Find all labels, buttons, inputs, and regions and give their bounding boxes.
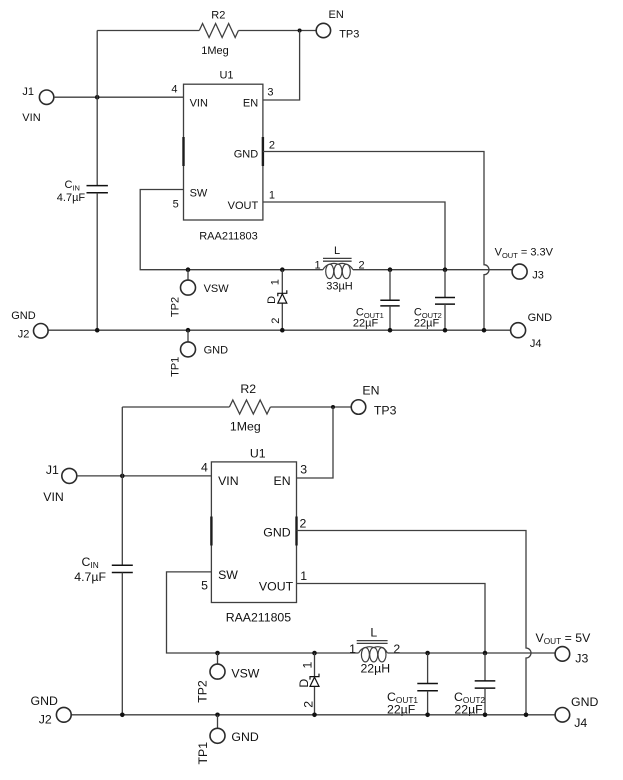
- resistor R2: [199, 24, 238, 38]
- svg-text:2: 2: [270, 318, 282, 324]
- junction VIN node: [95, 95, 100, 100]
- svg-text:SW: SW: [190, 188, 208, 200]
- capacitor COUT1: [380, 270, 399, 331]
- svg-text:J1: J1: [22, 86, 34, 98]
- wire SW loop: [140, 190, 323, 270]
- svg-text:1Meg: 1Meg: [201, 45, 229, 57]
- svg-text:L: L: [334, 245, 340, 257]
- svg-text:5: 5: [173, 199, 179, 211]
- connector J2: [34, 324, 49, 339]
- wire pin 1 VOUT down to output node: [263, 202, 445, 270]
- junction TP2 at SW node: [186, 267, 191, 272]
- IC U1 RAA211805: [211, 462, 296, 603]
- resistor R2 (B): [229, 400, 270, 414]
- test point TP2 B: [210, 664, 225, 679]
- wire VOUT node to J3: [353, 269, 512, 271]
- svg-text:EN: EN: [329, 9, 344, 21]
- wire pin 2 GND to right with hop: [263, 152, 489, 331]
- test point TP3 B: [351, 400, 366, 415]
- svg-text:TP3: TP3: [374, 403, 397, 417]
- junction COUT1 gnd: [388, 328, 393, 333]
- IC U1 RAA211803: [184, 84, 263, 220]
- svg-text:TP2: TP2: [196, 680, 210, 703]
- svg-text:J3: J3: [532, 270, 544, 282]
- svg-text:1: 1: [349, 642, 356, 656]
- junction TP1 gnd B: [215, 713, 220, 718]
- junction TP1 gnd: [186, 328, 191, 333]
- inductor core bars B: [357, 640, 388, 642]
- svg-text:1: 1: [269, 189, 275, 201]
- svg-text:1: 1: [269, 279, 281, 285]
- svg-text:J4: J4: [530, 338, 542, 350]
- svg-text:4.7µF: 4.7µF: [74, 570, 106, 584]
- wire EN down to pin 3 B: [297, 407, 334, 478]
- svg-text:EN: EN: [362, 383, 379, 397]
- svg-text:VSW: VSW: [204, 283, 230, 295]
- svg-text:22µH: 22µH: [360, 662, 390, 676]
- svg-text:VOUT = 5V: VOUT = 5V: [536, 631, 592, 646]
- junction COUT2 gnd: [443, 328, 448, 333]
- wire TP2 stub: [187, 270, 189, 281]
- wire EN rail to TP3: [238, 30, 316, 32]
- svg-text:SW: SW: [218, 568, 238, 582]
- svg-text:GND: GND: [263, 526, 290, 540]
- svg-text:2: 2: [269, 140, 275, 152]
- svg-text:TP1: TP1: [196, 742, 210, 765]
- svg-text:VIN: VIN: [43, 490, 64, 504]
- connector J3 B: [555, 647, 570, 662]
- test point TP3: [316, 23, 330, 37]
- svg-text:GND: GND: [31, 694, 58, 708]
- wire VIN rail upper: [96, 31, 98, 186]
- svg-text:33µH: 33µH: [326, 280, 353, 292]
- junction COUT1 top: [388, 267, 393, 272]
- svg-text:VIN: VIN: [218, 474, 239, 488]
- junction diode gnd B: [312, 713, 317, 718]
- svg-text:GND: GND: [528, 312, 553, 324]
- test point TP1: [181, 342, 196, 357]
- gnd bus wire B: [71, 714, 555, 716]
- connector J1 B: [62, 468, 77, 483]
- junction CIN gnd: [95, 328, 100, 333]
- svg-text:EN: EN: [243, 97, 258, 109]
- junction pin2 gnd B: [524, 713, 529, 718]
- junction EN node: [298, 29, 302, 33]
- IC U1 edge tick left B: [210, 517, 212, 546]
- capacitor CIN: [87, 186, 108, 331]
- test point TP1 B: [210, 728, 225, 743]
- junction TP2 at SW node B: [215, 651, 220, 656]
- inductor L coil B: [359, 647, 388, 662]
- inductor core bars: [323, 257, 352, 259]
- svg-text:1: 1: [300, 662, 314, 669]
- svg-text:3: 3: [300, 463, 307, 477]
- svg-text:GND: GND: [204, 344, 229, 356]
- svg-text:VIN: VIN: [190, 97, 208, 109]
- svg-text:1: 1: [300, 569, 307, 583]
- svg-text:TP2: TP2: [169, 297, 181, 317]
- wire pin 2 GND to right with hop B: [297, 531, 532, 715]
- svg-text:VIN: VIN: [22, 112, 40, 124]
- junction COUT2 top B: [483, 651, 488, 656]
- junction EN node B: [331, 405, 335, 409]
- junction COUT2 gnd B: [483, 713, 488, 718]
- connector J3: [512, 264, 527, 279]
- inductor L coil: [323, 263, 353, 278]
- junction diode gnd: [280, 328, 285, 333]
- diode D (schottky): [278, 270, 287, 331]
- svg-text:2: 2: [300, 517, 307, 531]
- junction diode at SW node: [280, 267, 285, 272]
- svg-text:GND: GND: [234, 149, 259, 161]
- svg-text:1Meg: 1Meg: [230, 419, 261, 433]
- connector J2 B: [56, 707, 71, 722]
- svg-text:3: 3: [267, 87, 273, 99]
- connector J4 B: [555, 708, 570, 723]
- junction CIN gnd B: [120, 713, 125, 718]
- svg-text:J3: J3: [575, 652, 588, 666]
- junction diode at SW node B: [312, 651, 317, 656]
- wire VIN rail upper B: [121, 407, 123, 565]
- svg-text:5: 5: [201, 579, 208, 593]
- svg-text:2: 2: [302, 701, 316, 708]
- wire TP1 stub B: [217, 715, 219, 729]
- test point TP2: [181, 280, 196, 295]
- svg-text:GND: GND: [571, 695, 598, 709]
- wire EN rail to TP3 B: [270, 406, 351, 408]
- svg-text:J4: J4: [574, 716, 587, 730]
- junction COUT2 top: [443, 267, 448, 272]
- wire J1 to VIN pin 4 B: [77, 475, 212, 477]
- svg-text:U1: U1: [250, 447, 266, 461]
- junction COUT1 top B: [425, 651, 430, 656]
- svg-text:2: 2: [393, 642, 400, 656]
- svg-text:VOUT: VOUT: [259, 579, 294, 593]
- wire TP2 stub B: [217, 653, 219, 664]
- svg-text:TP1: TP1: [169, 357, 181, 377]
- svg-text:J1: J1: [46, 463, 59, 477]
- svg-text:TP3: TP3: [339, 29, 359, 41]
- svg-text:J2: J2: [18, 328, 30, 340]
- svg-text:VOUT = 3.3V: VOUT = 3.3V: [495, 247, 554, 260]
- svg-text:J2: J2: [39, 712, 52, 726]
- wire pin 1 VOUT down B: [297, 584, 486, 654]
- gnd bus wire: [48, 329, 511, 331]
- wire EN rail top (R2 left segment): [97, 30, 199, 32]
- junction VIN node B: [120, 474, 125, 479]
- svg-text:CIN: CIN: [65, 179, 80, 192]
- svg-text:22µF: 22µF: [353, 318, 379, 330]
- wire EN down to pin 3: [263, 31, 300, 101]
- wire VOUT node to J3 B: [387, 652, 555, 654]
- svg-text:RAA211803: RAA211803: [199, 230, 258, 242]
- svg-text:VSW: VSW: [231, 667, 259, 681]
- IC U1 edge tick right: [262, 137, 264, 166]
- svg-text:R2: R2: [211, 10, 225, 22]
- capacitor CIN B: [112, 565, 133, 715]
- svg-text:U1: U1: [219, 69, 233, 81]
- svg-text:EN: EN: [274, 474, 291, 488]
- svg-text:4: 4: [201, 460, 208, 474]
- svg-text:22µF: 22µF: [414, 318, 440, 330]
- svg-text:L: L: [370, 626, 377, 640]
- wire SW loop B: [167, 572, 359, 653]
- capacitor COUT2: [435, 270, 455, 331]
- svg-text:VOUT: VOUT: [228, 200, 259, 212]
- svg-text:D: D: [266, 296, 278, 304]
- svg-text:1: 1: [315, 259, 321, 271]
- junction COUT1 gnd B: [425, 713, 430, 718]
- svg-text:GND: GND: [231, 730, 258, 744]
- svg-text:4: 4: [171, 84, 177, 96]
- svg-text:RAA211805: RAA211805: [226, 610, 292, 624]
- connector J4: [511, 323, 526, 338]
- connector J1: [39, 90, 53, 104]
- wire J1 to VIN pin 4: [54, 96, 184, 98]
- svg-text:D: D: [297, 679, 311, 688]
- svg-text:CIN: CIN: [82, 555, 99, 570]
- wire TP1 stub: [187, 330, 189, 342]
- wire EN rail top B (R2 left segment): [122, 406, 229, 408]
- diode D (schottky) B: [310, 653, 319, 715]
- IC U1 edge tick left: [182, 137, 184, 166]
- capacitor COUT1 B: [417, 653, 438, 715]
- svg-text:R2: R2: [240, 382, 256, 396]
- capacitor COUT2 B: [475, 653, 496, 715]
- junction pin2 gnd: [482, 328, 487, 333]
- IC U1 edge tick right B: [295, 517, 297, 546]
- svg-text:4.7µF: 4.7µF: [57, 192, 86, 204]
- svg-text:GND: GND: [11, 310, 36, 322]
